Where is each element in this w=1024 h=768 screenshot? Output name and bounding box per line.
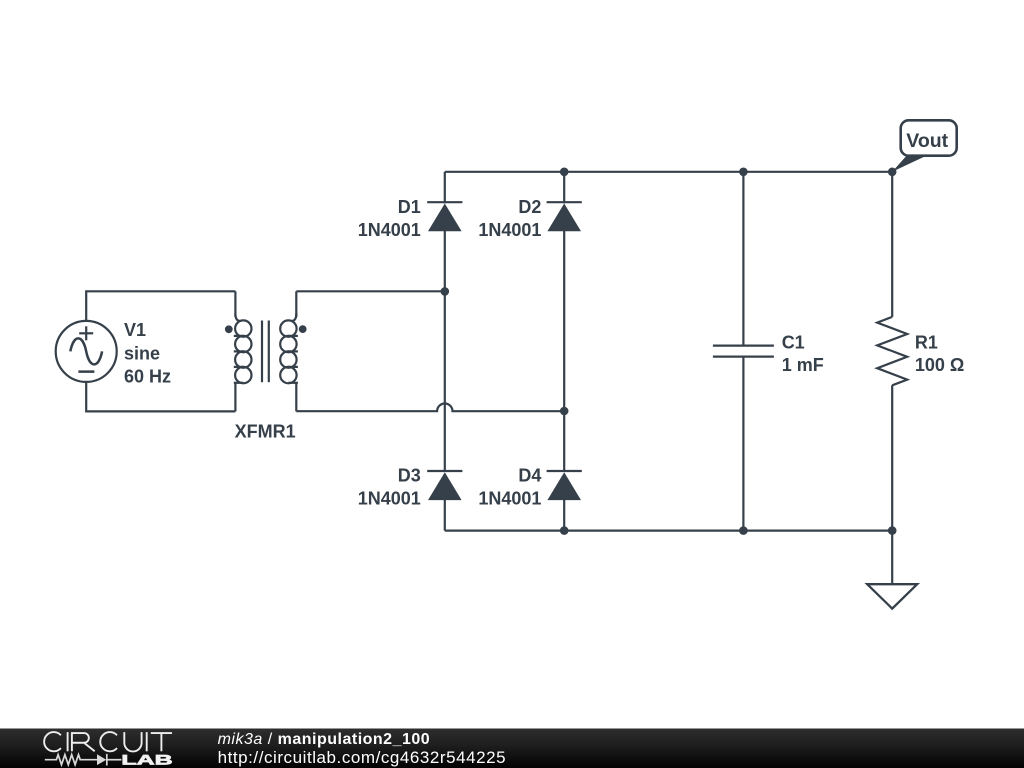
label D1 (358, 197, 421, 240)
node dot secondary bottom / D4 column (560, 407, 569, 416)
label D4 (478, 466, 541, 509)
svg-text:1 mF: 1 mF (782, 355, 824, 375)
node dot bottom rail D4 (560, 526, 569, 535)
voltage source V1 (56, 321, 117, 382)
logo diode triangle (97, 754, 106, 765)
svg-text:http://circuitlab.com/cg4632r5: http://circuitlab.com/cg4632r544225 (218, 748, 507, 767)
svg-text:LAB: LAB (121, 751, 172, 767)
svg-text:1N4001: 1N4001 (358, 489, 421, 509)
node dot bottom rail C1 (739, 526, 748, 535)
wire transformer secondary top to bridge (296, 290, 445, 292)
capacitor C1 (713, 346, 774, 357)
wire top rail (445, 171, 892, 173)
logo resistor-diode art (45, 754, 122, 766)
node dot bridge left / secondary top (441, 287, 450, 296)
transformer phase dot left (225, 325, 233, 333)
diode D3 (427, 471, 462, 500)
svg-text:D3: D3 (398, 466, 421, 486)
diode D1 (427, 202, 462, 231)
svg-text:C1: C1 (782, 332, 805, 352)
svg-text:D2: D2 (518, 197, 541, 217)
wire capacitor column (742, 172, 744, 346)
ground (867, 584, 917, 608)
label R1 100 ohm (915, 332, 964, 375)
svg-text:V1: V1 (124, 320, 146, 340)
wire source bottom left (86, 382, 235, 412)
svg-text:1N4001: 1N4001 (478, 489, 541, 509)
svg-text:Vout: Vout (906, 130, 948, 152)
svg-text:1N4001: 1N4001 (478, 220, 541, 240)
wire left bridge column (444, 172, 446, 204)
svg-text:100 Ω: 100 Ω (915, 355, 964, 375)
wire resistor column (891, 172, 893, 317)
label C1 1 mF (782, 332, 824, 375)
label D3 (358, 466, 421, 509)
node dot top rail C1 (739, 168, 748, 177)
transformer XFMR1 (234, 291, 298, 411)
wire source top left (86, 291, 235, 321)
svg-text:mik3a / manipulation2_100: mik3a / manipulation2_100 (218, 731, 431, 748)
svg-text:60 Hz: 60 Hz (124, 366, 171, 386)
svg-text:XFMR1: XFMR1 (235, 422, 296, 442)
svg-text:R1: R1 (915, 332, 938, 352)
node dot bottom rail ground (888, 526, 897, 535)
wire ground stub (891, 531, 893, 585)
wire transformer secondary bottom with hop over left bridge column (296, 404, 564, 412)
node dot top rail Vout (888, 168, 897, 177)
footer bar (0, 729, 1024, 768)
label D2 (478, 197, 541, 240)
node dot top rail D2 (560, 168, 569, 177)
svg-text:D4: D4 (518, 466, 541, 486)
diode D2 (547, 202, 582, 231)
transformer phase dot right (299, 325, 307, 333)
svg-text:sine: sine (124, 343, 160, 363)
logo CIRCUIT lettering (44, 732, 172, 751)
diode D4 (547, 471, 582, 500)
svg-text:1N4001: 1N4001 (358, 220, 421, 240)
wire bottom rail (445, 529, 892, 531)
label V1 sine 60 Hz (124, 320, 171, 386)
net flag Vout (892, 120, 957, 172)
resistor R1 (877, 317, 907, 385)
wire right bridge column (563, 172, 565, 204)
svg-text:D1: D1 (398, 197, 421, 217)
